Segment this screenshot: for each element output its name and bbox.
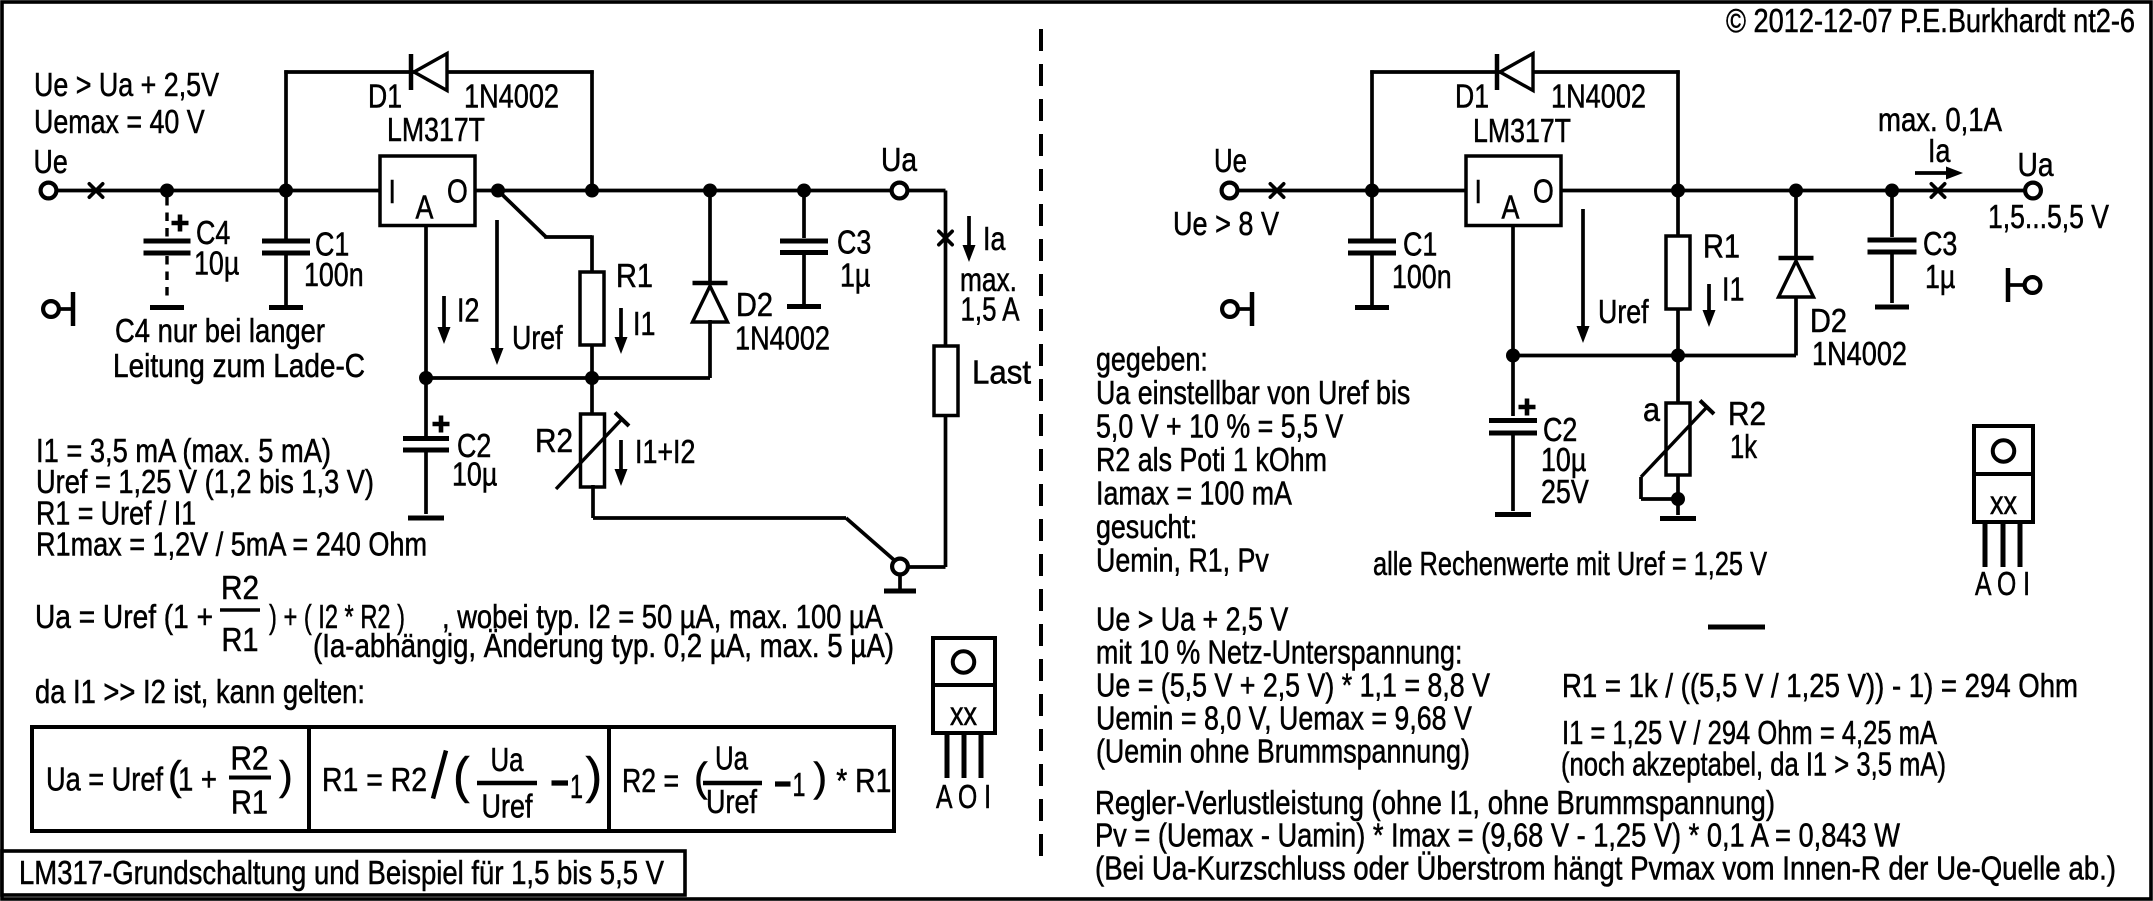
switch lever — [846, 518, 894, 560]
label R2 — [535, 423, 573, 460]
svg-text:1N4002: 1N4002 — [735, 321, 830, 358]
TO-220 right divider — [1974, 472, 2033, 476]
svg-text:C1: C1 — [1403, 227, 1437, 264]
label C2 voltage 25V — [1541, 474, 1589, 511]
label C2 — [457, 428, 491, 465]
wire C3 right lower — [1890, 255, 1894, 304]
terminal Ue right — [1222, 183, 1238, 199]
svg-text:10µ: 10µ — [452, 457, 497, 494]
svg-text:(Bei Ua-Kurzschluss oder Übers: (Bei Ua-Kurzschluss oder Überstrom hängt… — [1095, 851, 2116, 888]
svg-text:Ue > Ua + 2,5V: Ue > Ua + 2,5V — [34, 67, 220, 104]
big paren left c2 — [453, 748, 470, 804]
wire load bottom — [909, 416, 946, 568]
junction node R1 right — [1671, 184, 1685, 198]
wire D2 right lower — [1794, 297, 1798, 356]
label max. 0,1A — [1878, 102, 2003, 139]
label C3 — [837, 225, 871, 262]
svg-text:25V: 25V — [1541, 474, 1589, 511]
resistor R1 right — [1666, 236, 1690, 309]
svg-text:R1: R1 — [616, 258, 653, 295]
note Ue > 8 V — [1173, 206, 1280, 243]
wire A pin right — [1511, 226, 1515, 356]
svg-text:O: O — [1533, 174, 1554, 211]
svg-text:D2: D2 — [1810, 303, 1847, 340]
junction node output — [491, 184, 505, 198]
capacitor C1 right plates — [1348, 241, 1396, 253]
wire R1 bottom — [590, 345, 594, 378]
formula box divider 1 — [307, 727, 311, 831]
label R2 value 1k — [1730, 429, 1757, 466]
note I1 = 4,25 mA — [1562, 715, 1937, 752]
diode D2 — [693, 283, 728, 322]
label 1,5 A — [961, 292, 1021, 329]
label R1 — [616, 258, 653, 295]
label I1+I2 — [635, 434, 695, 471]
svg-text:Uref: Uref — [706, 784, 758, 821]
C3 ground bar — [787, 304, 821, 309]
current arrow I1 — [615, 308, 628, 354]
label Last — [972, 355, 1032, 392]
x mark right input — [1270, 184, 1283, 197]
svg-text:Ua: Ua — [2018, 147, 2054, 184]
svg-text:Last: Last — [972, 355, 1032, 392]
U1 right pin label A — [1502, 190, 1520, 227]
svg-text:R2: R2 — [535, 423, 573, 460]
current arrow I2 — [438, 296, 451, 344]
switch ground tick — [898, 576, 902, 589]
C2 ground bar — [408, 516, 444, 521]
svg-text:): ) — [813, 754, 827, 800]
fraction Ua num c3 — [715, 741, 748, 778]
svg-text:R1: R1 — [1703, 229, 1740, 266]
current arrow Ia — [963, 216, 976, 262]
U1 right pin label I — [1475, 174, 1482, 211]
svg-text:(Ia-abhängig, Änderung typ. 0,: (Ia-abhängig, Änderung typ. 0,2 µA, max.… — [313, 628, 894, 665]
wire D1 right circuit right vertical — [1676, 70, 1680, 190]
svg-text:D1: D1 — [1455, 79, 1489, 116]
TO-220 left hole — [953, 651, 975, 673]
regulator LM317 box right — [1466, 156, 1561, 226]
label C1 right — [1403, 227, 1437, 264]
note Ua einstellbar von Uref bis — [1096, 375, 1410, 412]
node label Ue — [34, 144, 68, 181]
wire D1 left vertical — [284, 70, 288, 190]
note Ue > Ua + 2,5 V — [1096, 602, 1289, 639]
svg-text:1µ: 1µ — [840, 258, 870, 295]
box formula 1 + — [178, 762, 217, 799]
x mark input wire — [89, 184, 102, 197]
dashed wire below C4 — [165, 256, 168, 300]
capacitor C3 plates — [780, 241, 828, 253]
wire D2 right upper — [1794, 191, 1798, 257]
load resistor Last — [934, 346, 958, 416]
svg-text:Iamax = 100 mA: Iamax = 100 mA — [1096, 476, 1292, 513]
C3 right ground bar — [1875, 305, 1909, 310]
wire LM317 output rail — [475, 189, 891, 193]
wire C3 lower — [802, 255, 806, 304]
x mark load wire — [939, 231, 952, 244]
svg-text:I: I — [389, 174, 396, 211]
svg-text:I1: I1 — [633, 306, 655, 343]
note gegeben: — [1096, 342, 1208, 379]
fraction R1 denominator — [222, 622, 259, 659]
svg-text:Uemin = 8,0 V, Uemax = 9,68 V: Uemin = 8,0 V, Uemax = 9,68 V — [1096, 701, 1472, 738]
fraction bar c3 — [703, 781, 762, 786]
svg-text:Ue: Ue — [34, 144, 68, 181]
svg-text:O: O — [447, 174, 468, 211]
label D1 value 1N4002 — [464, 79, 559, 116]
note gesucht: — [1096, 509, 1197, 546]
TO-220 right legs — [1985, 522, 2020, 567]
label a wiper — [1643, 392, 1660, 429]
label D2 value right — [1812, 336, 1907, 373]
note Leitung zum Lade-C — [113, 348, 365, 385]
copyright note — [1726, 3, 2135, 40]
svg-text:xx: xx — [1990, 485, 2017, 522]
svg-text:mit 10 % Netz-Unterspannung:: mit 10 % Netz-Unterspannung: — [1096, 635, 1462, 672]
C4 plus sign — [172, 215, 189, 232]
note alle Rechenwerte — [1373, 546, 1767, 583]
note 5,0 V + 10 % = 5,5 V — [1096, 409, 1344, 446]
node label Ua right — [2018, 147, 2054, 184]
svg-text:Uref: Uref — [512, 320, 563, 357]
wire R2 right top — [1676, 356, 1680, 404]
formula Ua = Uref (1 + — [35, 599, 213, 636]
junction node D2 right — [1789, 184, 1803, 198]
TO-220 left legs — [947, 733, 981, 778]
label max. — [960, 262, 1017, 299]
svg-text:Ua: Ua — [715, 741, 748, 778]
label LM317T right — [1473, 113, 1571, 150]
wire D2 upper — [708, 191, 712, 282]
note Ue > Ua + 2,5V — [34, 67, 220, 104]
U1 right pin label O — [1533, 174, 1554, 211]
note Uemax = 40 V — [34, 104, 205, 141]
big slash c2 — [433, 751, 446, 799]
label C1 value right — [1392, 259, 1452, 296]
input plug symbol right — [1222, 292, 1252, 326]
svg-text:Ua: Ua — [491, 742, 524, 779]
TO-220 right marking xx — [1990, 485, 2017, 522]
formula Ia-abhaengig — [313, 628, 894, 665]
big paren left c3 — [694, 754, 708, 800]
svg-text:Ue = (5,5 V + 2,5 V) * 1,1 = 8: Ue = (5,5 V + 2,5 V) * 1,1 = 8,8 V — [1096, 668, 1491, 705]
label C2 value 10µ — [452, 457, 497, 494]
label output range — [1988, 199, 2110, 236]
adjust rail wire — [426, 376, 710, 380]
svg-text:R2 als Poti 1 kOhm: R2 als Poti 1 kOhm — [1096, 442, 1327, 479]
junction node D1 right — [585, 184, 599, 198]
caption text — [19, 855, 665, 892]
note Uemin = 8,0 V, Uemax = 9,68 V — [1096, 701, 1472, 738]
node label Ua — [881, 142, 917, 179]
wire R1 right bottom — [1676, 309, 1680, 356]
C2 right ground bar — [1495, 512, 1531, 517]
TO-220 left marking xx — [950, 696, 977, 733]
fraction Ua num c2 — [491, 742, 524, 779]
label D1 right — [1455, 79, 1489, 116]
label Ia right — [1928, 133, 1951, 170]
junction node C2 — [419, 371, 433, 385]
svg-text:1: 1 — [570, 769, 583, 806]
svg-text:R1: R1 — [222, 622, 259, 659]
short rule line — [1708, 625, 1765, 630]
label C4 value 10µ — [194, 246, 239, 283]
wire D1 right vertical — [590, 70, 594, 190]
svg-text:R1 = R2: R1 = R2 — [322, 762, 427, 799]
note Bei Ua-Kurzschluss — [1095, 851, 2116, 888]
svg-text:R1max = 1,2V / 5mA = 240 Ohm: R1max = 1,2V / 5mA = 240 Ohm — [36, 527, 427, 564]
diode D1 — [411, 54, 447, 91]
svg-text:Uemax = 40 V: Uemax = 40 V — [34, 104, 205, 141]
svg-text:LM317-Grundschaltung und Beisp: LM317-Grundschaltung und Beispiel für 1,… — [19, 855, 665, 892]
svg-text:(: ( — [453, 748, 470, 804]
adjust rail right — [1513, 354, 1796, 358]
big paren right c3 — [813, 754, 827, 800]
wire R1 top — [590, 235, 594, 272]
svg-text:R2: R2 — [221, 570, 259, 607]
formula box — [32, 727, 894, 831]
label I2 — [457, 293, 479, 330]
svg-text:1k: 1k — [1730, 429, 1757, 466]
box formula Ua = Uref — [46, 762, 164, 799]
TO-220 right hole — [1993, 440, 2015, 462]
box formula R1 = R2 — [322, 762, 427, 799]
svg-text:A: A — [1502, 190, 1520, 227]
label C3 value right — [1925, 259, 1955, 296]
C1 ground bar — [269, 305, 303, 310]
capacitor C1 plates — [262, 241, 310, 253]
node label Ue right — [1214, 143, 1247, 180]
fraction bar c1 — [229, 776, 271, 780]
svg-text:Ue: Ue — [1214, 143, 1247, 180]
svg-text:1µ: 1µ — [1925, 259, 1955, 296]
label Uref — [512, 320, 563, 357]
TO-220 package outline right — [1974, 426, 2033, 522]
variable resistor R2 — [581, 414, 605, 487]
note R1 = 294 Ohm — [1562, 668, 2078, 705]
svg-text:* R1: * R1 — [836, 763, 891, 800]
wire C2 upper — [424, 378, 428, 436]
wire Ue to LM317 input — [58, 189, 381, 193]
fraction Uref den c3 — [706, 784, 758, 821]
diode D2 right — [1779, 258, 1814, 297]
svg-text:I: I — [1475, 174, 1482, 211]
svg-text:): ) — [586, 748, 603, 804]
svg-text:Pv = (Uemax - Uamin) * Imax =: Pv = (Uemax - Uamin) * Imax = (9,68 V - … — [1095, 818, 1900, 855]
wire C2 right lower — [1511, 436, 1515, 512]
note Ue = (5,5 V + 2,5 V) * 1,1 = 8,8 V — [1096, 668, 1491, 705]
C2 right plus sign — [1519, 399, 1536, 416]
switch ground bar — [884, 589, 916, 594]
big paren right c1 — [279, 753, 293, 799]
R2 right ground bar — [1660, 516, 1696, 521]
wire C1 upper — [284, 191, 288, 239]
caption box — [2, 851, 685, 895]
R2 right wiper arrow — [1641, 401, 1714, 478]
svg-text:D2: D2 — [736, 287, 773, 324]
minus one c3 — [775, 767, 806, 804]
capacitor C2 right plates — [1489, 421, 1537, 434]
svg-text:Regler-Verlustleistung (ohne I: Regler-Verlustleistung (ohne I1, ohne Br… — [1095, 785, 1775, 822]
wire R2 top — [590, 378, 594, 414]
svg-text:Ua: Ua — [881, 142, 917, 179]
voltage arrow Uref right — [1577, 209, 1590, 343]
note Pv equation — [1095, 818, 1900, 855]
label R1 right — [1703, 229, 1740, 266]
wire A pin — [424, 226, 428, 379]
TO-220 left divider — [933, 683, 995, 687]
potentiometer R2 right — [1666, 403, 1690, 475]
svg-text:C4 nur bei langer: C4 nur bei langer — [115, 313, 325, 350]
TO-220 left pin labels A O I — [936, 779, 991, 816]
svg-text:© 2012-12-07 P.E.Burkhardt nt2: © 2012-12-07 P.E.Burkhardt nt2-6 — [1726, 3, 2135, 40]
TO-220 right pin labels A O I — [1975, 566, 2030, 603]
svg-text:I1+I2: I1+I2 — [635, 434, 695, 471]
svg-text:Ue > Ua + 2,5 V: Ue > Ua + 2,5 V — [1096, 602, 1289, 639]
current arrow I1 right — [1703, 284, 1716, 327]
svg-text:1N4002: 1N4002 — [1812, 336, 1907, 373]
resistor R1 — [580, 272, 604, 345]
junction node R2 top — [585, 371, 599, 385]
label C4 — [196, 215, 230, 252]
note Iamax = 100 mA — [1096, 476, 1292, 513]
label LM317T — [387, 112, 485, 149]
regulator U1 LM317 box — [380, 156, 475, 226]
C2 plus sign — [433, 416, 450, 433]
note (Uemin ohne Brummspannung) — [1096, 734, 1470, 771]
box formula * R1 — [836, 763, 891, 800]
C4 ground bar — [150, 305, 184, 310]
wire C2 lower — [424, 453, 428, 515]
junction node C1/D1 right — [1365, 184, 1379, 198]
U1 pin label I — [389, 174, 396, 211]
svg-text:gegeben:: gegeben: — [1096, 342, 1208, 379]
capacitor C2 plates — [403, 439, 449, 451]
formula wobei typ. I2 — [442, 599, 884, 636]
note mit 10 % Netz-Unterspannung: — [1096, 635, 1462, 672]
svg-text:C3: C3 — [837, 225, 871, 262]
svg-text:R1: R1 — [231, 785, 268, 822]
junction node C3 right — [1885, 184, 1899, 198]
wire Ua to load — [909, 191, 946, 347]
wire C1 lower — [284, 256, 288, 306]
label D1 value right — [1551, 79, 1646, 116]
svg-text:D1: D1 — [368, 79, 402, 116]
input plug symbol — [43, 292, 73, 326]
junction node wiper — [1671, 492, 1685, 506]
fraction R2 num c1 — [231, 741, 269, 778]
wire C1 right lower — [1370, 256, 1374, 306]
wire D1 right circuit left vertical — [1370, 70, 1374, 190]
label I1 right — [1722, 272, 1744, 309]
wire D1 right circuit top — [1370, 70, 1679, 74]
svg-text:100n: 100n — [304, 257, 364, 294]
svg-text:1,5 A: 1,5 A — [961, 292, 1021, 329]
svg-text:LM317T: LM317T — [387, 112, 485, 149]
svg-text:da I1 >> I2 ist, kann gelten:: da I1 >> I2 ist, kann gelten: — [35, 674, 365, 711]
svg-text:I2: I2 — [457, 293, 479, 330]
svg-text:R2: R2 — [1728, 396, 1766, 433]
label D2 — [736, 287, 773, 324]
terminal Ua — [892, 183, 908, 199]
svg-text:Ue > 8 V: Ue > 8 V — [1173, 206, 1280, 243]
wire C2 right upper — [1511, 356, 1515, 417]
box formula R2 = — [622, 763, 679, 800]
svg-text:LM317T: LM317T — [1473, 113, 1571, 150]
svg-text:Ua = Uref (1 +: Ua = Uref (1 + — [35, 599, 213, 636]
fraction Uref den c2 — [482, 789, 534, 826]
label C3 right — [1923, 226, 1957, 263]
wire C1 right upper — [1370, 191, 1374, 239]
wire output rail right — [1561, 189, 2025, 193]
svg-text:): ) — [279, 753, 293, 799]
wire diagonal output to R1 — [498, 191, 592, 238]
junction node C3 — [797, 184, 811, 198]
junction node R1 top rail — [703, 184, 717, 198]
svg-text:I1: I1 — [1722, 272, 1744, 309]
fraction bar c2 — [477, 781, 537, 786]
svg-text:Ia: Ia — [1928, 133, 1951, 170]
svg-text:1,5...5,5 V: 1,5...5,5 V — [1988, 199, 2110, 236]
dashed separator line — [1039, 29, 1043, 858]
label Uref right — [1598, 294, 1649, 331]
svg-text:Uemin, R1, Pv: Uemin, R1, Pv — [1096, 543, 1269, 580]
note C4 nur bei langer — [115, 313, 325, 350]
note Uref = 1,25 V (1,2 bis 1,3 V) — [36, 464, 374, 501]
TO-220 package outline left — [933, 638, 995, 733]
terminal Ue — [41, 183, 57, 199]
label C1 — [315, 227, 349, 264]
svg-text:1N4002: 1N4002 — [1551, 79, 1646, 116]
voltage arrow Uref — [491, 220, 504, 365]
note R1 = Uref / I1 — [36, 496, 196, 533]
svg-text:1 +: 1 + — [178, 762, 217, 799]
wire R1 right top — [1676, 191, 1680, 237]
svg-text:1N4002: 1N4002 — [464, 79, 559, 116]
svg-text:Ua einstellbar von Uref bis: Ua einstellbar von Uref bis — [1096, 375, 1410, 412]
svg-text:R2: R2 — [231, 741, 269, 778]
current arrow I1+I2 — [615, 440, 628, 486]
junction node C2 right — [1506, 349, 1520, 363]
note R2 als Poti 1 kOhm — [1096, 442, 1327, 479]
U1 pin label A — [416, 190, 434, 227]
svg-text:Ua = Uref: Ua = Uref — [46, 762, 164, 799]
wire D1 top — [284, 70, 593, 74]
note R1max = 1,2V / 5mA = 240 Ohm — [36, 527, 427, 564]
svg-text:R2 =: R2 = — [622, 763, 679, 800]
svg-text:5,0 V + 10 % = 5,5 V: 5,0 V + 10 % = 5,5 V — [1096, 409, 1344, 446]
svg-text:A O I: A O I — [1975, 566, 2030, 603]
formula ) + ( I2 * R2 ) — [269, 599, 405, 636]
svg-text:(noch akzeptabel, da I1 > 3,5: (noch akzeptabel, da I1 > 3,5 mA) — [1561, 747, 1946, 784]
R2 wiper arrow — [556, 413, 629, 490]
current arrow Ia right — [1915, 167, 1963, 180]
C1 right ground bar — [1355, 305, 1389, 310]
wire R2 right bottom — [1676, 475, 1680, 515]
fraction R1 den c1 — [231, 785, 268, 822]
capacitor C4 plates — [144, 241, 191, 253]
wiper connection wire — [1641, 477, 1678, 499]
junction node C1/D1 — [279, 184, 293, 198]
label D1 — [368, 79, 402, 116]
label C2 value 10µ right — [1541, 442, 1586, 479]
wire D2 lower — [708, 320, 712, 378]
junction node C4 — [160, 184, 174, 198]
terminal Ua right — [2025, 183, 2041, 199]
wire R2 bottom to switch — [593, 485, 846, 518]
svg-text:C3: C3 — [1923, 226, 1957, 263]
